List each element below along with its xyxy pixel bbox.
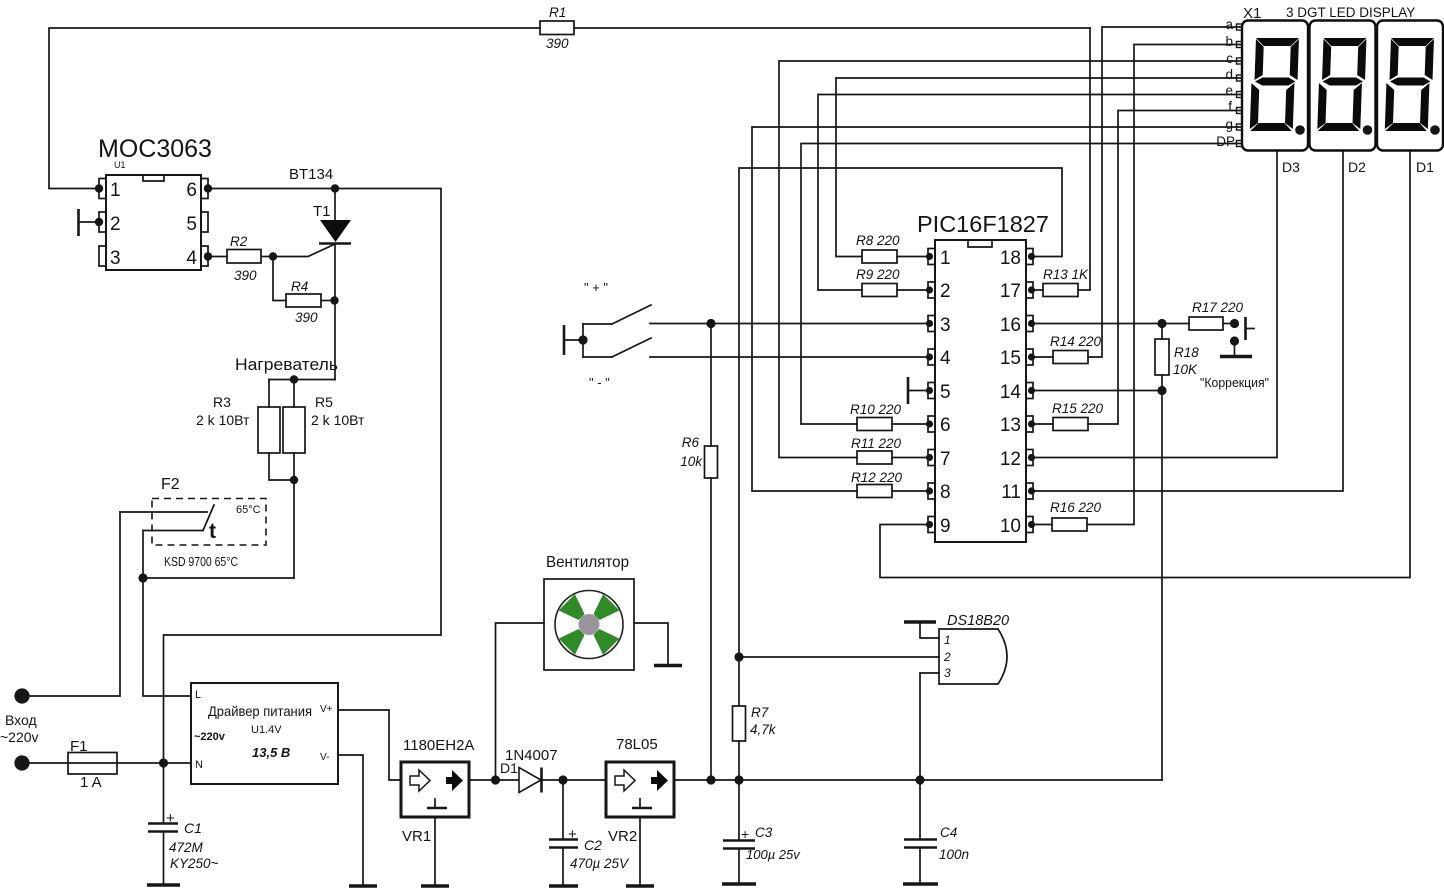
capacitor C2	[562, 780, 564, 839]
wire: R1 right side across top to corner x1090	[574, 27, 1090, 29]
svg-text:13: 13	[1000, 415, 1021, 436]
pushbutton Коррекция	[1244, 317, 1247, 340]
svg-text:15: 15	[1000, 348, 1021, 369]
resistor R18	[1161, 324, 1163, 340]
node: gate junction	[269, 252, 277, 260]
svg-text:1N4007: 1N4007	[505, 747, 558, 764]
wire: F2 to L node	[142, 531, 144, 579]
resistor R10 (pin6 to segment DP)	[801, 144, 1242, 425]
node: R6 tap	[706, 319, 715, 328]
wire: fan to ground	[634, 623, 668, 665]
svg-text:"Коррекция": "Коррекция"	[1200, 376, 1269, 390]
wire: +5V rail from VR2 output to pin14 riser	[674, 779, 1162, 781]
svg-text:4: 4	[940, 348, 951, 369]
svg-text:1: 1	[940, 248, 951, 269]
svg-text:R6: R6	[682, 435, 700, 450]
svg-text:Вход: Вход	[5, 712, 37, 728]
svg-text:C4: C4	[940, 825, 957, 840]
wire: heater top node	[269, 379, 335, 381]
svg-text:+: +	[568, 826, 577, 843]
svg-text:VR1: VR1	[402, 828, 431, 845]
wire: MOC pin4 to R2	[208, 256, 227, 258]
wire: pin12 to digit D3 common	[1032, 151, 1277, 458]
wire: MOC pin6 to T1 anode node and over to x441	[164, 189, 442, 764]
svg-text:KY250~: KY250~	[170, 856, 219, 871]
node: BT134 top junction	[331, 184, 339, 192]
ground (correction button)	[1220, 355, 1252, 359]
display connector pin nubs	[1237, 24, 1243, 147]
svg-text:D1: D1	[1416, 159, 1434, 175]
svg-text:7: 7	[940, 449, 951, 470]
svg-text:13,5 В: 13,5 В	[252, 745, 290, 760]
pin connection dots PIC right	[1028, 253, 1035, 528]
svg-text:D3: D3	[1282, 159, 1300, 175]
ground (driver V-)	[349, 884, 377, 888]
display digit D1	[1377, 21, 1443, 151]
svg-text:DP: DP	[1216, 134, 1235, 149]
node: pin14 / R18 bottom	[1157, 386, 1166, 395]
wire: data to DS pin2	[739, 656, 939, 658]
wire: node down to driver L input	[143, 578, 191, 696]
node: R18 top	[1157, 319, 1166, 328]
svg-text:3: 3	[110, 248, 121, 269]
svg-text:390: 390	[234, 268, 257, 283]
svg-text:T1: T1	[313, 203, 331, 220]
svg-text:12: 12	[1000, 449, 1021, 470]
resistor R5	[283, 407, 305, 453]
diode D1 1N4007	[519, 768, 541, 793]
svg-text:c: c	[1226, 51, 1233, 66]
node: MOC pin4	[204, 252, 212, 260]
svg-text:F2: F2	[161, 476, 180, 493]
svg-text:6: 6	[186, 180, 197, 201]
svg-text:" - ": " - "	[589, 375, 610, 390]
svg-text:Вентилятор: Вентилятор	[546, 554, 629, 571]
svg-text:1: 1	[110, 180, 121, 201]
svg-text:R7: R7	[751, 705, 769, 720]
resistor R1	[540, 21, 574, 35]
wire: gate of T1 from R2/R4 node	[273, 245, 334, 257]
capacitor C3	[738, 780, 740, 840]
svg-text:390: 390	[546, 36, 569, 51]
display digit D3	[1242, 21, 1308, 151]
svg-text:~220v: ~220v	[0, 729, 39, 745]
svg-text:18: 18	[1000, 248, 1021, 269]
wire: down from gate node to R4	[273, 257, 286, 301]
svg-text:100µ 25v: 100µ 25v	[746, 847, 801, 862]
svg-text:1 A: 1 A	[80, 774, 102, 791]
svg-text:100n: 100n	[939, 847, 969, 862]
node: R6 on +5 rail	[706, 775, 715, 784]
node: MOC pin2	[95, 218, 103, 226]
regulator VR1 1180EH2A	[401, 762, 469, 817]
node: DS data	[734, 652, 743, 661]
wire: "-" to PIC pin4	[650, 356, 928, 358]
svg-text:DS18B20: DS18B20	[947, 613, 1009, 629]
svg-text:b: b	[1225, 34, 1233, 49]
wire: driver V+ to VR1 input	[338, 710, 401, 780]
wire: "+" to PIC pin3	[650, 323, 928, 325]
wire: R4 to T1 cathode line	[321, 300, 335, 302]
svg-text:9: 9	[940, 516, 951, 537]
svg-text:d: d	[1225, 67, 1233, 82]
wire: VR2 bottom to ground	[639, 817, 641, 886]
resistor R3	[258, 407, 280, 453]
svg-text:2: 2	[940, 281, 951, 302]
svg-text:6: 6	[940, 415, 951, 436]
thermal cutout F2 (dashed)	[152, 499, 266, 546]
wire: VR1 output to VR2 input	[469, 779, 606, 781]
node: R4 right junction	[330, 296, 338, 304]
svg-text:Нагреватель: Нагреватель	[235, 355, 338, 374]
wire: heater bottom to node	[143, 577, 294, 579]
wire: heater bottoms joined	[269, 453, 294, 578]
svg-text:14: 14	[1000, 382, 1022, 403]
resistor R4	[286, 294, 321, 307]
node: C2 tap	[558, 775, 567, 784]
svg-text:2 k 10Вт: 2 k 10Вт	[196, 412, 250, 428]
resistor R14 (pin15 to segment a)	[1032, 356, 1053, 358]
regulator VR2 78L05	[606, 762, 674, 817]
svg-text:U1.4V: U1.4V	[251, 724, 282, 736]
wire: pin16 to R17	[1032, 323, 1189, 325]
svg-text:t: t	[209, 520, 216, 543]
node: MOC pin6	[204, 184, 212, 192]
svg-text:e: e	[1225, 83, 1233, 98]
svg-text:+: +	[741, 826, 749, 842]
node: fan tap	[491, 775, 500, 784]
svg-text:R16 220: R16 220	[1050, 500, 1102, 515]
svg-text:R8 220: R8 220	[856, 233, 900, 248]
ground (C3)	[722, 882, 756, 886]
svg-text:C3: C3	[755, 825, 773, 840]
capacitor C1	[163, 763, 165, 823]
fuse F1	[68, 753, 117, 775]
svg-text:5: 5	[186, 214, 197, 235]
power driver module	[191, 683, 338, 784]
wire: mains input live up to F2	[29, 512, 120, 696]
svg-text:R17 220: R17 220	[1192, 300, 1244, 315]
resistor R12 (pin8 to segment g)	[752, 127, 1242, 491]
svg-text:10: 10	[1000, 516, 1021, 537]
MOC pin2 NC stub	[79, 221, 100, 223]
svg-text:390: 390	[295, 310, 318, 325]
node: R7/C3 on +5 rail	[734, 775, 743, 784]
wire: R2 to gate node	[261, 256, 273, 258]
svg-text:C2: C2	[584, 837, 602, 853]
wire: driver V- to ground	[338, 755, 363, 886]
svg-text:3: 3	[944, 666, 951, 680]
F2 switch contacts	[120, 511, 207, 513]
triac T1	[319, 189, 351, 380]
svg-text:R3: R3	[213, 394, 231, 410]
svg-text:~220v: ~220v	[194, 731, 226, 743]
svg-text:VR2: VR2	[608, 828, 637, 845]
PIC pin5 stub symbol	[908, 390, 928, 392]
svg-text:17: 17	[1000, 281, 1021, 302]
svg-text:78L05: 78L05	[616, 736, 658, 753]
resistor R13 1K (pin17 to R1 net)	[1032, 289, 1043, 291]
svg-text:R5: R5	[315, 394, 333, 410]
svg-text:R10 220: R10 220	[850, 402, 902, 417]
resistor R6	[710, 324, 712, 447]
wire: mains top rail from MOC pin1 up and across to R1	[49, 28, 540, 189]
resistor R11 (pin7 to segment c)	[779, 61, 1242, 458]
wire: DS pin1 to gnd bar	[920, 623, 939, 638]
node: DS vdd / C4	[915, 775, 924, 784]
wire: neutral through F1 to driver N	[29, 762, 191, 764]
svg-text:R9 220: R9 220	[856, 267, 900, 282]
wire: fan feed	[496, 623, 545, 780]
svg-text:V-: V-	[320, 752, 329, 763]
node: button top contact	[1230, 319, 1239, 328]
svg-text:L: L	[195, 689, 201, 701]
svg-text:F1: F1	[70, 738, 88, 755]
svg-text:4: 4	[186, 248, 197, 269]
svg-text:KSD 9700 65°C: KSD 9700 65°C	[164, 555, 238, 569]
display digit D2	[1310, 21, 1376, 151]
svg-text:U1: U1	[114, 160, 126, 170]
ground (fan)	[654, 664, 682, 668]
svg-text:R13 1K: R13 1K	[1043, 267, 1089, 282]
svg-text:5: 5	[940, 382, 951, 403]
svg-text:V+: V+	[320, 704, 333, 715]
node: MOC pin1	[95, 184, 103, 192]
resistor R8 (pin1 to segment d)	[836, 78, 1242, 257]
svg-text:MOC3063: MOC3063	[98, 135, 212, 163]
svg-text:10K: 10K	[1173, 362, 1198, 377]
wire: pin11 to digit D2 common	[1032, 151, 1343, 491]
svg-text:4,7k: 4,7k	[750, 722, 777, 737]
resistor R17	[1189, 317, 1223, 330]
svg-text:16: 16	[1000, 315, 1021, 336]
ground (VR2)	[626, 884, 654, 888]
svg-text:2: 2	[110, 214, 121, 235]
svg-text:BT134: BT134	[289, 166, 333, 183]
capacitor C4	[919, 780, 921, 839]
resistor R7 pullup	[738, 657, 740, 706]
svg-text:2: 2	[943, 650, 951, 664]
svg-text:2 k 10Вт: 2 k 10Вт	[311, 412, 365, 428]
svg-text:g: g	[1225, 117, 1233, 132]
svg-text:" + ": " + "	[584, 280, 608, 295]
ground (C1)	[147, 883, 180, 887]
svg-text:472M: 472M	[169, 840, 204, 855]
wire: DS pin3 to +5 rail	[920, 673, 939, 780]
svg-text:C1: C1	[184, 820, 202, 836]
svg-text:a: a	[1225, 17, 1233, 32]
svg-text:3: 3	[940, 315, 951, 336]
svg-text:R18: R18	[1174, 345, 1199, 360]
svg-text:R1: R1	[549, 5, 566, 20]
svg-text:65°C: 65°C	[236, 504, 261, 516]
svg-text:f: f	[1228, 99, 1232, 114]
svg-text:8: 8	[940, 482, 951, 503]
svg-text:1180EH2A: 1180EH2A	[403, 737, 474, 754]
terminal: Вход live	[14, 688, 29, 703]
svg-text:R4: R4	[291, 279, 308, 294]
resistor R16 (pin10 to segment b)	[1032, 524, 1052, 526]
wire: pin9 to digit D1 common	[880, 151, 1410, 578]
wire: pin14 VDD riser to +5 rail	[1032, 391, 1162, 781]
svg-text:R15 220: R15 220	[1052, 401, 1104, 416]
svg-text:R11 220: R11 220	[851, 436, 902, 451]
svg-text:10k: 10k	[680, 454, 703, 469]
svg-text:N: N	[195, 759, 203, 771]
svg-text:R2: R2	[230, 234, 248, 249]
ground (VR1)	[421, 884, 449, 888]
ground (C4)	[903, 882, 938, 886]
node: heater top	[290, 375, 298, 383]
wire: VR1 bottom to ground	[434, 817, 436, 886]
svg-text:D2: D2	[1348, 159, 1366, 175]
svg-text:Драйвер питания: Драйвер питания	[208, 703, 312, 719]
segment pin labels a-g DP	[1216, 17, 1235, 149]
resistor R15 (pin13 to segment f)	[1032, 423, 1053, 425]
pin connection dots PIC left	[926, 253, 933, 528]
svg-text:R12 220: R12 220	[851, 470, 903, 485]
svg-text:1: 1	[944, 633, 951, 647]
node: N junction	[159, 758, 168, 767]
svg-text:3 DGT LED DISPLAY: 3 DGT LED DISPLAY	[1286, 5, 1415, 20]
svg-text:R14 220: R14 220	[1050, 334, 1102, 349]
resistor R2	[227, 250, 261, 264]
wire: PIC pin18 loop to DS18B20 data	[739, 168, 1062, 657]
svg-text:11: 11	[1001, 482, 1021, 503]
wire: drops to R3 R5	[269, 380, 294, 408]
svg-text:PIC16F1827: PIC16F1827	[917, 211, 1049, 237]
node: F2 / heater / L junction	[138, 573, 147, 582]
terminal: Вход neutral	[14, 755, 29, 770]
resistor R9 (pin2 to segment e)	[818, 95, 1242, 291]
node: heater bottom	[290, 476, 298, 484]
svg-text:+: +	[166, 810, 175, 827]
svg-text:470µ 25V: 470µ 25V	[570, 856, 630, 871]
optocoupler U1 MOC3063	[99, 175, 208, 270]
ground (C2)	[549, 884, 578, 888]
